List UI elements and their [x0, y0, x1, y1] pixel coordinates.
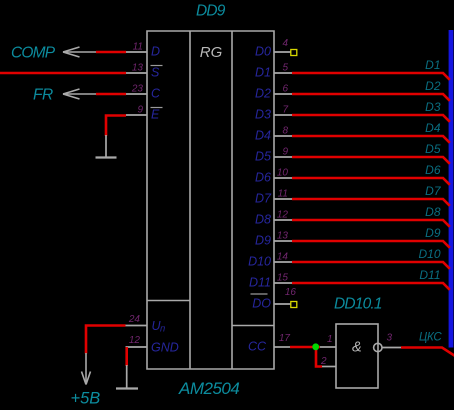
pin Up (24) — [126, 314, 167, 335]
svg-text:17: 17 — [279, 333, 291, 344]
svg-text:13: 13 — [277, 231, 289, 242]
svg-text:9: 9 — [137, 105, 143, 116]
svg-text:5: 5 — [282, 63, 288, 74]
ground GND2 — [116, 365, 138, 389]
svg-text:D4: D4 — [425, 121, 441, 135]
wire D6 to bus — [292, 178, 450, 185]
svg-text:S: S — [151, 66, 160, 80]
wire D10 to bus — [292, 262, 450, 269]
svg-text:8: 8 — [282, 126, 288, 137]
svg-text:+5В: +5В — [71, 390, 101, 408]
svg-text:10: 10 — [277, 168, 289, 179]
wire COMP to pin D — [96, 51, 126, 54]
wire FR to pin C — [96, 93, 126, 96]
pin C (23) — [126, 84, 161, 101]
svg-text:2: 2 — [320, 356, 327, 367]
svg-text:15: 15 — [277, 273, 289, 284]
port arrow COMP — [63, 47, 96, 57]
pin S (13) — [126, 63, 163, 80]
wire D2 to bus — [292, 94, 450, 101]
pin D9 (13) — [255, 231, 292, 248]
pin DO (16) unconnected — [251, 287, 297, 311]
junction node — [312, 343, 319, 350]
wire pin E to ground — [106, 116, 126, 137]
svg-text:D2: D2 — [425, 79, 441, 93]
svg-text:CC: CC — [248, 340, 267, 354]
wire D4 to bus — [292, 136, 450, 143]
svg-text:16: 16 — [285, 287, 297, 298]
svg-text:D9: D9 — [425, 226, 441, 240]
svg-text:D7: D7 — [425, 184, 442, 198]
wire D11 to bus — [292, 283, 450, 290]
svg-text:D3: D3 — [255, 108, 271, 122]
svg-text:DD9: DD9 — [196, 3, 226, 20]
svg-text:E: E — [151, 108, 160, 122]
svg-text:14: 14 — [277, 252, 289, 263]
wire D7 to bus — [292, 199, 450, 206]
svg-text:D8: D8 — [425, 205, 441, 219]
svg-text:D11: D11 — [249, 276, 271, 290]
svg-text:D7: D7 — [255, 192, 272, 206]
wire D1 to bus — [292, 73, 450, 80]
svg-text:п: п — [160, 324, 166, 335]
pin D10 (14) — [248, 252, 292, 269]
svg-text:АМ2504: АМ2504 — [178, 379, 239, 398]
pin D1 (5) — [255, 63, 292, 80]
pin E (9) — [126, 105, 163, 122]
pin D2 (6) — [255, 84, 292, 101]
svg-text:9: 9 — [282, 147, 288, 158]
svg-text:D3: D3 — [425, 100, 441, 114]
svg-text:D6: D6 — [425, 163, 441, 177]
svg-text:RG: RG — [200, 44, 223, 61]
svg-text:D5: D5 — [425, 142, 441, 156]
svg-text:D11: D11 — [419, 268, 440, 282]
ground GND1 — [96, 135, 117, 158]
svg-text:24: 24 — [128, 314, 141, 325]
gate output stub — [382, 347, 401, 349]
wire CC to gate inputs — [290, 346, 320, 349]
svg-text:D4: D4 — [255, 129, 271, 143]
svg-text:D10: D10 — [248, 255, 271, 269]
svg-text:D: D — [151, 45, 160, 59]
wire D3 to bus — [292, 115, 450, 122]
svg-text:4: 4 — [282, 38, 288, 49]
pin D6 (10) — [255, 168, 292, 185]
svg-text:D10: D10 — [418, 247, 440, 261]
svg-text:13: 13 — [132, 63, 144, 74]
svg-text:11: 11 — [133, 42, 143, 53]
wire GND pin down — [125, 347, 128, 366]
IC DD9 body (AM2504 register) — [147, 31, 274, 369]
pin D7 (11) — [255, 189, 292, 206]
svg-text:12: 12 — [129, 335, 141, 346]
pin D3 (7) — [255, 105, 292, 122]
gate output bubble — [374, 343, 382, 351]
pin CC (17) — [248, 333, 290, 354]
svg-text:D0: D0 — [255, 45, 271, 59]
svg-text:GND: GND — [151, 341, 179, 355]
svg-text:&: & — [352, 340, 362, 356]
svg-text:7: 7 — [282, 105, 288, 116]
svg-text:D1: D1 — [425, 58, 440, 72]
port arrow FR — [63, 89, 96, 99]
wire D5 to bus — [292, 157, 450, 164]
gate DD10.1 body — [336, 324, 378, 388]
svg-text:D2: D2 — [255, 87, 271, 101]
power symbol +5V arrow — [82, 353, 91, 385]
svg-text:23: 23 — [131, 84, 144, 95]
bus D[1..11] — [449, 30, 454, 348]
pin D5 (9) — [255, 147, 292, 164]
svg-text:ЦКС: ЦКС — [419, 332, 442, 344]
wire D9 to bus — [292, 241, 450, 248]
svg-text:D6: D6 — [255, 171, 271, 185]
pin D (11) — [126, 42, 160, 59]
svg-text:DD10.1: DD10.1 — [334, 296, 382, 313]
svg-text:C: C — [151, 87, 161, 101]
wire (off-page) to pin S — [0, 72, 126, 75]
svg-text:6: 6 — [282, 84, 288, 95]
pin D8 (12) — [255, 210, 292, 227]
gate DD10.1 input stubs — [320, 347, 336, 367]
pin D4 (8) — [255, 126, 292, 143]
svg-text:D1: D1 — [255, 66, 271, 80]
wire D8 to bus — [292, 220, 450, 227]
svg-text:COMP: COMP — [11, 45, 56, 62]
wire CKC output — [401, 348, 454, 357]
pin GND (12) — [126, 335, 179, 355]
svg-text:DO: DO — [252, 297, 271, 311]
svg-text:D5: D5 — [255, 150, 271, 164]
svg-text:11: 11 — [278, 189, 288, 200]
svg-text:D8: D8 — [255, 213, 271, 227]
pin D11 (15) — [249, 273, 292, 290]
pin D0 (4) unconnected — [255, 38, 297, 59]
svg-text:1: 1 — [327, 334, 333, 345]
svg-text:FR: FR — [33, 87, 53, 104]
wire Up to +5V — [86, 326, 126, 354]
svg-text:12: 12 — [277, 210, 289, 221]
svg-text:3: 3 — [387, 333, 393, 344]
svg-text:D9: D9 — [255, 234, 271, 248]
